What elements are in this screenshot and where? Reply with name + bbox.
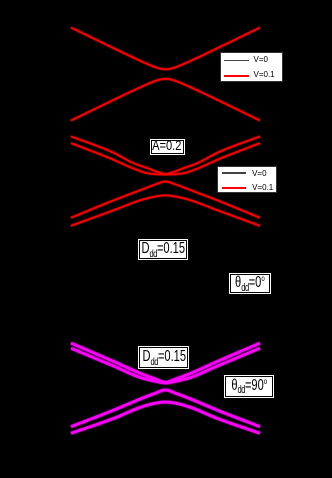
label theta-dd=0 panel2 (230, 274, 269, 294)
legend2 V=0 sample line (222, 172, 246, 174)
curve panel1 lower V=0.1 branch (71, 79, 260, 121)
curve panel3 upper branch line1 (71, 343, 260, 382)
curve panel3 lower branch line2 (71, 402, 260, 433)
legend2 V=0.1 text (252, 183, 273, 192)
legend box panel1 (220, 52, 283, 82)
legend1 V=0.1 text (254, 70, 275, 79)
curve panel2 lower branch line1 (71, 182, 260, 218)
legend2 V=0 text (252, 169, 266, 178)
curve panel2 upper branch line1 (71, 136, 260, 174)
legend1 V=0 text (254, 55, 268, 64)
legend2 V=0.1 sample line (222, 187, 246, 189)
legend1 V=0.1 sample line (224, 75, 249, 77)
legend1 V=0 sample line (224, 60, 249, 62)
label theta-dd=90 panel3 (225, 376, 272, 397)
curve panel2 lower branch line2 (71, 195, 260, 225)
curve panel3 upper branch line2 (71, 348, 260, 383)
label Ddd=0.15 panel2 (139, 240, 187, 259)
curve panel2 upper branch line2 (71, 143, 260, 174)
label Ddd=0.15 panel3 (139, 347, 188, 368)
curve panel1 upper V=0.1 branch (71, 28, 260, 70)
legend box panel2 (217, 166, 277, 194)
curve panel3 lower branch line1 (71, 390, 260, 427)
label A=0.2 (151, 140, 184, 154)
